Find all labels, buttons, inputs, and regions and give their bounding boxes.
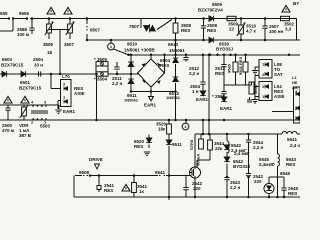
svg-text:ASIE: ASIE bbox=[274, 94, 285, 99]
svg-text:RES: RES bbox=[215, 71, 224, 76]
svg-text:2,4 мкГ: 2,4 мкГ bbox=[234, 151, 250, 156]
svg-text:9541: 9541 bbox=[155, 170, 166, 175]
svg-text:100 нн: 100 нн bbox=[269, 29, 283, 34]
svg-text:1N5061: 1N5061 bbox=[169, 48, 185, 53]
svg-text:* 3504: * 3504 bbox=[94, 77, 108, 82]
svg-text:100 м: 100 м bbox=[17, 32, 30, 37]
svg-text:2,2 н: 2,2 н bbox=[189, 71, 200, 76]
svg-text:L70: L70 bbox=[62, 74, 70, 79]
svg-text:RES: RES bbox=[160, 63, 169, 68]
svg-text:220: 220 bbox=[193, 186, 201, 191]
svg-text:18к: 18к bbox=[158, 127, 166, 132]
svg-text:6545: 6545 bbox=[280, 171, 291, 176]
svg-text:6503: 6503 bbox=[2, 57, 13, 62]
svg-text:SAT: SAT bbox=[274, 72, 283, 77]
svg-text:BZX79F2V4: BZX79F2V4 bbox=[198, 8, 223, 13]
svg-text:BZX79C15: BZX79C15 bbox=[1, 63, 24, 68]
svg-text:1 н: 1 н bbox=[192, 89, 199, 94]
svg-text:1N5061: 1N5061 bbox=[124, 98, 139, 103]
svg-text:RES: RES bbox=[134, 144, 143, 149]
svg-text:2,2 н: 2,2 н bbox=[230, 185, 241, 190]
svg-text:9507: 9507 bbox=[90, 28, 101, 33]
svg-text:220: 220 bbox=[254, 179, 262, 184]
svg-text:2,4мкФ: 2,4мкФ bbox=[259, 162, 275, 167]
svg-text:RES: RES bbox=[104, 188, 113, 193]
svg-text:BY: BY bbox=[293, 1, 299, 6]
svg-text:DRIVE: DRIVE bbox=[89, 157, 103, 162]
svg-text:EAR1: EAR1 bbox=[196, 97, 209, 102]
svg-text:2,4 ч: 2,4 ч bbox=[290, 143, 300, 148]
svg-text:9511: 9511 bbox=[172, 142, 182, 147]
svg-text:RES: RES bbox=[286, 162, 295, 167]
svg-text:1к: 1к bbox=[139, 189, 145, 194]
svg-text:387 В: 387 В bbox=[19, 133, 32, 138]
svg-text:* 3505: * 3505 bbox=[94, 57, 108, 62]
svg-text:STR5: STR5 bbox=[189, 139, 194, 150]
svg-text:2,2 н: 2,2 н bbox=[112, 81, 123, 86]
svg-text:9565: 9565 bbox=[227, 63, 232, 73]
svg-text:* 2505: * 2505 bbox=[212, 94, 226, 99]
svg-text:250n: 250n bbox=[33, 57, 44, 62]
svg-text:EAR1: EAR1 bbox=[144, 103, 157, 108]
svg-text:400мА: 400мА bbox=[196, 153, 201, 166]
svg-text:1N5061: 1N5061 bbox=[166, 95, 181, 100]
svg-text:2,2 н: 2,2 н bbox=[253, 145, 264, 150]
svg-text:RES: RES bbox=[207, 28, 216, 33]
svg-text:4,7 к: 4,7 к bbox=[246, 29, 257, 34]
svg-text:6501: 6501 bbox=[20, 80, 31, 85]
svg-text:3506: 3506 bbox=[43, 42, 54, 47]
svg-text:BYD33J: BYD33J bbox=[233, 164, 251, 169]
svg-text:BYD33J: BYD33J bbox=[216, 47, 234, 52]
svg-text:EAR1: EAR1 bbox=[63, 109, 76, 114]
svg-text:9556: 9556 bbox=[19, 11, 30, 16]
svg-text:RES: RES bbox=[181, 28, 190, 33]
svg-text:6513: 6513 bbox=[168, 42, 179, 47]
svg-text:9502 RES: 9502 RES bbox=[238, 56, 243, 75]
svg-text:1N5061 +30бВ: 1N5061 +30бВ bbox=[124, 47, 155, 53]
svg-text:22: 22 bbox=[229, 27, 235, 32]
svg-text:33 н: 33 н bbox=[34, 63, 43, 68]
svg-text:RES: RES bbox=[288, 191, 297, 196]
svg-text:ASIE: ASIE bbox=[74, 91, 85, 96]
svg-text:EAR1: EAR1 bbox=[220, 106, 233, 111]
svg-text:9555: 9555 bbox=[0, 11, 8, 16]
svg-text:3507: 3507 bbox=[64, 42, 75, 47]
svg-text:22к: 22к bbox=[215, 146, 223, 151]
svg-text:6509: 6509 bbox=[212, 2, 223, 7]
svg-text:BZX79C15: BZX79C15 bbox=[19, 86, 42, 91]
svg-text:7507: 7507 bbox=[129, 24, 140, 29]
svg-text:9508: 9508 bbox=[79, 170, 90, 175]
svg-text:3006: 3006 bbox=[253, 84, 258, 94]
svg-text:3,3: 3,3 bbox=[285, 27, 292, 32]
svg-text:9510: 9510 bbox=[127, 42, 138, 47]
svg-text:5541: 5541 bbox=[287, 137, 298, 142]
svg-text:18: 18 bbox=[47, 50, 53, 55]
svg-text:470 м: 470 м bbox=[2, 128, 15, 133]
